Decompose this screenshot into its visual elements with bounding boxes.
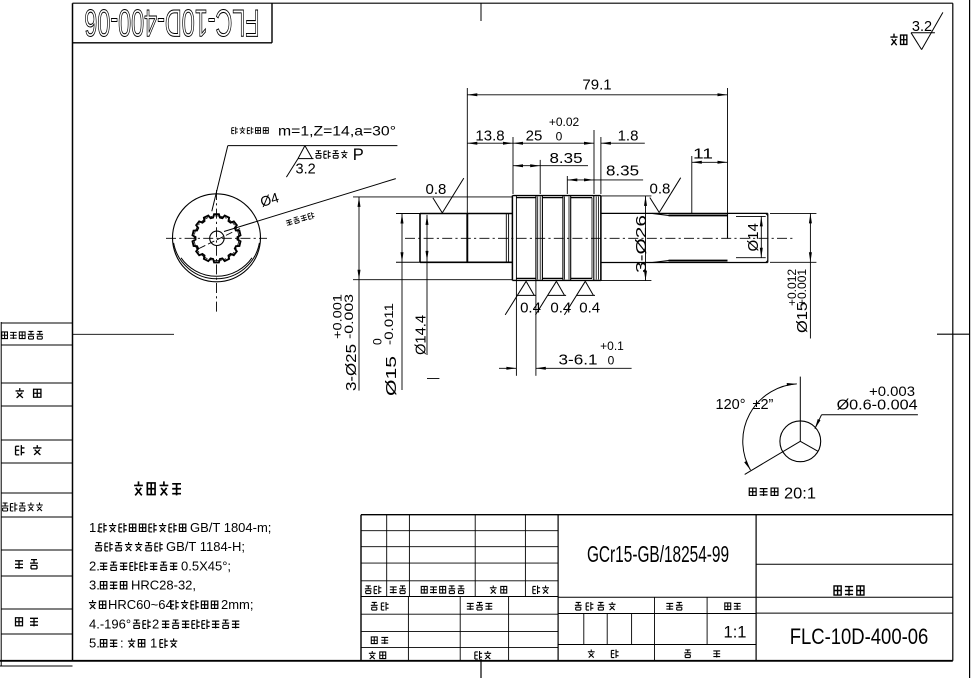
section outer eccentric circles (173, 194, 261, 282)
center hole phi4 (210, 231, 224, 245)
svg-text:HRC60~64: HRC60~64 (108, 597, 173, 612)
svg-text:-0.011: -0.011 (382, 303, 396, 345)
svg-text:1:1: 1:1 (724, 624, 747, 642)
svg-text:0.5X45°;: 0.5X45°; (181, 559, 231, 574)
others roughness note (890, 12, 943, 49)
top-left part number box (73, 2, 273, 45)
dimension 79.1 (467, 77, 727, 214)
dimension phi15 -0.011 (371, 214, 404, 397)
roughness 3.2 on spline (286, 146, 315, 178)
svg-text:HRC28-32,: HRC28-32, (131, 578, 196, 593)
svg-text:m=1,Z=14,a=30°: m=1,Z=14,a=30° (278, 124, 396, 139)
centering marks (481, 3, 970, 678)
spline teeth profile (193, 214, 241, 262)
svg-text:2: 2 (152, 617, 159, 632)
svg-text:1.8: 1.8 (618, 128, 639, 145)
drawing number (790, 626, 929, 650)
svg-text:3-Ø25: 3-Ø25 (343, 344, 360, 391)
right shaft section (601, 213, 768, 262)
angle text (716, 397, 774, 413)
svg-text:+0.001: +0.001 (795, 269, 809, 306)
shaft centerline (405, 237, 793, 239)
roughness 0.4 groove1 (505, 281, 541, 316)
svg-text:1.: 1. (89, 520, 100, 535)
svg-text:3-6.1: 3-6.1 (559, 352, 598, 369)
svg-text:2mm;: 2mm; (221, 597, 254, 612)
middle labels (575, 602, 747, 658)
svg-text:120°: 120° (716, 397, 746, 413)
eccentric spokes (745, 377, 818, 475)
svg-text:3.: 3. (89, 578, 100, 593)
svg-text:20:1: 20:1 (784, 486, 816, 503)
svg-text:3.2: 3.2 (296, 162, 316, 178)
cam block verticals (discs and chamfers) (512, 196, 601, 281)
dimension 3-phi25 (331, 197, 361, 391)
svg-text:0: 0 (556, 130, 563, 144)
dimension 8.35 b (567, 163, 643, 195)
section crosshairs (166, 190, 267, 312)
svg-text:P: P (353, 146, 364, 164)
svg-text:+0.1: +0.1 (600, 339, 624, 353)
dimension phi14.4 (413, 215, 440, 379)
svg-text:8.35: 8.35 (550, 150, 583, 167)
spline pitch circle (194, 216, 239, 261)
svg-text:11: 11 (693, 146, 713, 163)
svg-text:Ø15: Ø15 (383, 356, 400, 396)
svg-text:0.4: 0.4 (550, 299, 571, 316)
svg-text::: : (120, 636, 124, 651)
svg-text:2.: 2. (89, 559, 100, 574)
svg-text:±2”: ±2” (753, 397, 774, 413)
tech requirements text (89, 520, 271, 651)
title block grid (361, 515, 953, 661)
svg-text:Ø14.4: Ø14.4 (413, 315, 430, 355)
left margin strip table (1, 323, 72, 634)
svg-text:Ø0.6-0.004: Ø0.6-0.004 (837, 398, 918, 414)
part name (834, 586, 864, 596)
svg-text:0.4: 0.4 (579, 299, 600, 316)
angle arc 120 (743, 382, 797, 470)
svg-text:25: 25 (526, 128, 543, 145)
phi0.6 leader (814, 415, 918, 430)
dimension phi15 +0.012 +0.001 (770, 213, 816, 338)
left strip labels (2, 331, 43, 626)
svg-text:1: 1 (150, 636, 157, 651)
svg-text:5.: 5. (89, 636, 100, 651)
svg-text:GB/T 1184-H;: GB/T 1184-H; (166, 539, 245, 554)
svg-text:GB/T 1804-m;: GB/T 1804-m; (190, 520, 271, 535)
svg-text:+0.02: +0.02 (549, 115, 580, 129)
dimension phi14 (745, 216, 763, 257)
roughness 0.8 right (650, 178, 681, 213)
eccentric scale label (749, 486, 816, 503)
roughness 0.4 groove2 (536, 281, 572, 316)
relief groove (506, 214, 508, 263)
eccentric detail circle (780, 421, 821, 462)
svg-text:13.8: 13.8 (475, 128, 504, 145)
svg-text:FLC-10D-400-06: FLC-10D-400-06 (84, 2, 259, 45)
leader from strip (73, 333, 175, 335)
svg-text:8.35: 8.35 (606, 163, 639, 180)
dimension 25 +0.02 0 (513, 115, 594, 194)
svg-text:79.1: 79.1 (582, 77, 611, 94)
dimension 13.8 (467, 128, 513, 195)
svg-text:GCr15-GB/18254-99: GCr15-GB/18254-99 (587, 542, 729, 568)
dimension 8.35 a (513, 150, 588, 194)
svg-text:0.8: 0.8 (426, 181, 447, 198)
svg-text:4.-196°: 4.-196° (89, 617, 131, 632)
roughness 0.4 groove3 (564, 281, 600, 316)
svg-text:FLC-10D-400-06: FLC-10D-400-06 (790, 626, 929, 650)
phi4 leader and label (224, 179, 396, 232)
extension lines for cam diameters (353, 196, 651, 281)
phi0.6 label (837, 384, 918, 414)
cam block outer contour (512, 196, 601, 281)
spline callout text (232, 124, 396, 165)
roughness 0.8 left (426, 178, 464, 213)
dimension 1.8 (601, 128, 645, 195)
dimension 3-phi26 (633, 196, 650, 281)
svg-text:0.4: 0.4 (520, 299, 541, 316)
svg-text:0.8: 0.8 (650, 181, 671, 198)
svg-text:-0.003: -0.003 (342, 294, 356, 339)
left section contour (396, 214, 512, 263)
svg-text:Ø14: Ø14 (745, 223, 762, 251)
title block header labels (365, 585, 549, 659)
dimension 3-6.1 (499, 281, 632, 376)
tech requirements title (134, 481, 181, 495)
dimension 11 (692, 146, 728, 214)
material spec (587, 542, 729, 568)
svg-text:3-Ø26: 3-Ø26 (633, 215, 650, 273)
spline callout leader (212, 146, 398, 212)
svg-text:0: 0 (608, 354, 615, 368)
